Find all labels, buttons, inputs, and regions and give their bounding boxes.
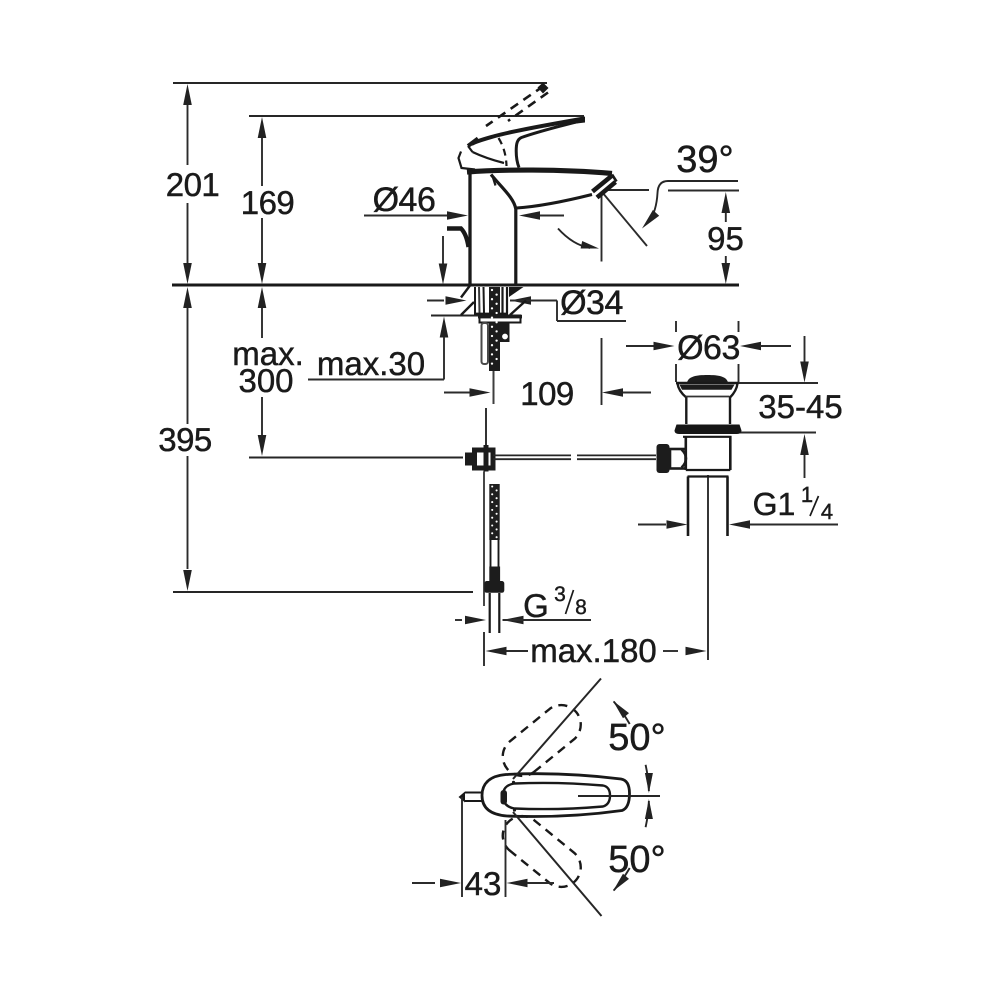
svg-text:Ø46: Ø46 — [373, 181, 436, 219]
supply connection reference line — [249, 457, 463, 459]
hidden line below dome — [493, 176, 496, 186]
50° boundary line upper — [513, 679, 601, 780]
svg-text:4: 4 — [821, 499, 833, 524]
raised lever position (dashed) — [486, 83, 549, 127]
svg-text:3: 3 — [554, 583, 566, 606]
svg-text:max.30: max.30 — [317, 345, 425, 382]
dimension Ø46 (body diameter) — [364, 181, 564, 220]
spout outlet reference line — [605, 189, 649, 191]
svg-text:1: 1 — [801, 482, 813, 507]
pull rod lower — [483, 472, 485, 607]
handle centerline — [578, 795, 660, 797]
pull rod middle — [485, 408, 487, 472]
hose end sleeve — [489, 567, 500, 583]
hidden cartridge line (dashed) — [499, 138, 507, 166]
handle rotated down 50° (dashed) — [503, 816, 581, 887]
svg-text:35-45: 35-45 — [758, 388, 842, 425]
svg-text:Ø63: Ø63 — [677, 329, 740, 367]
svg-text:max.180: max.180 — [530, 632, 657, 669]
dimension Ø34 (mounting hole) — [427, 284, 626, 322]
dimension 95 (spout outlet height) — [707, 192, 744, 284]
dimension G3/8 (supply thread) — [455, 583, 591, 624]
hose tube section — [491, 540, 499, 568]
handle rotated up 50° (dashed) — [503, 705, 581, 776]
svg-text:300: 300 — [238, 362, 293, 399]
dimension 169 (vertical, lever tip line to counter) — [241, 117, 295, 284]
hose nut — [484, 581, 504, 593]
spout tip (top view) — [459, 792, 484, 803]
hose-end reference line (395 level) — [173, 591, 473, 593]
dimension 43 (handle offset) — [412, 797, 554, 902]
95 reference line — [668, 190, 739, 192]
drain stopper cap — [687, 375, 728, 383]
supply pipe G3/8 — [490, 593, 500, 633]
counter section hatching at base — [461, 286, 526, 316]
50° boundary line lower — [513, 812, 602, 916]
svg-text:95: 95 — [707, 220, 744, 257]
pull-rod to supply cross fitting — [465, 450, 493, 468]
dimension 201 (vertical, top line to counter) — [166, 84, 220, 284]
svg-text:395: 395 — [158, 421, 212, 458]
dimension Ø63 (drain flange) — [626, 329, 791, 367]
threaded shank — [474, 287, 508, 314]
angle 39° label and leader — [642, 139, 738, 229]
svg-text:50°: 50° — [608, 839, 665, 881]
upper reference line (169 level) — [249, 115, 584, 117]
dimension 395 (counter to hose end) — [158, 287, 212, 591]
pop-up rod knob — [447, 229, 469, 248]
svg-text:50°: 50° — [608, 717, 665, 759]
lever handle (side view) — [468, 117, 585, 168]
outlet axis vertical line — [601, 196, 603, 405]
dimension 35-45 (drain install depth) — [738, 336, 843, 478]
horizontal pop-up rod — [493, 455, 656, 459]
svg-text:43: 43 — [465, 865, 502, 902]
svg-text:G: G — [523, 587, 549, 624]
dimension max.30 (counter thickness) — [308, 236, 448, 382]
svg-text:Ø34: Ø34 — [560, 284, 623, 322]
counter underside line — [431, 315, 521, 317]
faucet body right edge — [491, 175, 516, 285]
svg-text:8: 8 — [575, 596, 587, 619]
outlet angle arc — [558, 229, 599, 249]
faucet body left edge — [468, 170, 471, 284]
Ø63 extension lines — [676, 321, 739, 382]
dimension G1 1/4 (drain thread) — [638, 482, 838, 529]
mounting nut sleeve — [482, 323, 489, 364]
dimension max.300 (counter to supply connection) — [232, 287, 304, 456]
svg-text:169: 169 — [241, 184, 295, 221]
drain gasket — [675, 425, 742, 437]
lever handle top view — [482, 774, 630, 817]
drain tailpipe — [688, 477, 728, 537]
pop-up rod ball joint — [657, 444, 687, 473]
threaded stud — [489, 289, 500, 371]
flexible hose braid — [489, 484, 499, 540]
drain flange body — [676, 383, 739, 424]
mounting washer — [478, 315, 522, 323]
spout top edge — [467, 170, 612, 173]
drain body — [686, 436, 731, 477]
handle front trim — [459, 152, 476, 170]
dimension max.180 (hose swivel reach) — [484, 475, 708, 669]
outlet angle line (39° slant) — [602, 192, 647, 246]
top reference line (201 level) — [173, 82, 547, 84]
countertop line — [172, 284, 739, 287]
pull-rod clamp — [500, 323, 510, 343]
pull rod upper — [493, 371, 495, 404]
svg-text:39°: 39° — [676, 139, 733, 181]
dimension 109 (spout projection) — [444, 375, 651, 412]
50° arc upper — [608, 701, 665, 793]
50° arc lower — [608, 799, 665, 891]
svg-text:201: 201 — [166, 166, 220, 203]
svg-text:109: 109 — [520, 375, 574, 412]
spout underside — [517, 195, 593, 209]
svg-text:G1: G1 — [753, 486, 796, 522]
aerator (spout outlet) — [593, 175, 617, 198]
